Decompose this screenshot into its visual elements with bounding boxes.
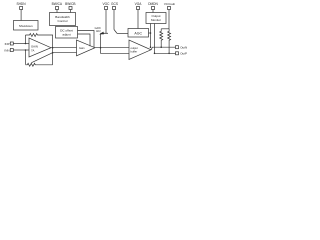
svg-text:BW/CA: BW/CA [52, 2, 63, 6]
svg-text:adjust: adjust [62, 32, 70, 36]
svg-text:ADJ: ADJ [96, 30, 101, 33]
wire A3 output / OUTN line [151, 47, 176, 50]
svg-text:BW/CB: BW/CB [65, 2, 75, 6]
svg-text:output: output [131, 46, 138, 50]
wire A1 output to A2 [51, 47, 77, 49]
pin DMDN [148, 2, 158, 13]
svg-text:INN: INN [4, 48, 9, 52]
svg-text:7A: 7A [31, 48, 35, 52]
wire OUTP line [155, 52, 176, 54]
wire DC offset inject (box right, inner) [78, 34, 91, 46]
svg-text:GCS: GCS [111, 2, 118, 6]
svg-text:INP: INP [5, 42, 10, 46]
pin BW/CB [65, 2, 75, 13]
wire monitor sense 2 [154, 24, 156, 54]
resistor RF2 bottom feedback [26, 63, 53, 66]
node RO2 on OUTP [168, 53, 170, 55]
wire AGC output sense stub [149, 32, 151, 34]
node A2 output junction [100, 47, 102, 49]
pin INN [4, 48, 29, 52]
svg-text:SHDN: SHDN [16, 2, 26, 6]
pin VGC [103, 2, 111, 33]
node monitor sense 1 [150, 46, 152, 48]
svg-text:OutP: OutP [180, 52, 187, 56]
wire VCC rail to resistors [161, 28, 169, 30]
switch GCS select [114, 30, 128, 34]
resistor RF1 top feedback [26, 34, 53, 48]
wire A1 second output to A2 [53, 52, 77, 54]
node feedback top tie [52, 47, 54, 49]
attenuator tap vertical [101, 34, 130, 54]
pin VGA [135, 2, 143, 29]
node AGC stub [150, 32, 152, 34]
label gain adjust [95, 27, 102, 33]
pin OUTP [176, 52, 188, 56]
svg-text:Control: Control [58, 19, 68, 23]
resistor RO1 pullup OUTN [160, 29, 163, 47]
block Shutdown [14, 21, 39, 31]
svg-text:DMDN: DMDN [148, 2, 158, 6]
wire feedback bottom left vertical [25, 50, 27, 65]
wire feedback top left vertical [25, 35, 27, 44]
node monitor sense 2 [154, 53, 156, 55]
block DC offset adjust [56, 27, 78, 39]
pin GCS [111, 2, 118, 30]
op-amp A2 gain stage [77, 40, 96, 56]
svg-text:VCCsub: VCCsub [164, 2, 176, 6]
svg-text:VGC: VGC [103, 2, 111, 6]
wire DC offset sense (box right, outer) [78, 31, 95, 48]
pin INP [5, 42, 29, 46]
pin SHDN [16, 2, 26, 21]
node feedback top on input line [25, 43, 27, 45]
resistor RO2 pullup OUTP [168, 29, 171, 54]
arrow VGC wiper [99, 32, 108, 35]
op-amp A1 input amplifier [29, 38, 51, 57]
svg-text:Shutdown: Shutdown [19, 24, 33, 28]
node RO1 on OUTN [160, 46, 162, 48]
block Output Monitor [146, 13, 166, 24]
op-amp A3 output buffer [129, 40, 151, 60]
block Bandwidth Control [50, 13, 76, 26]
svg-text:VGA: VGA [135, 2, 143, 6]
block AGC [128, 29, 149, 38]
pin VCCsub [164, 2, 176, 29]
wire monitor sense 1 [150, 24, 152, 48]
node feedback bottom on input line [25, 49, 27, 51]
svg-text:OutN: OutN [180, 45, 187, 49]
pin OUTN [176, 45, 188, 49]
svg-text:AGC: AGC [134, 31, 142, 35]
wire feedback bottom right vertical [52, 48, 54, 65]
svg-text:Monitor: Monitor [151, 18, 161, 22]
node second output tie [52, 52, 54, 54]
pin BW/CA [52, 2, 63, 13]
wire diagonal under A1 (second output) [32, 53, 53, 63]
svg-text:Gain: Gain [79, 46, 85, 50]
svg-text:buffer: buffer [131, 49, 138, 53]
wire A2 output to A3 [95, 47, 129, 49]
